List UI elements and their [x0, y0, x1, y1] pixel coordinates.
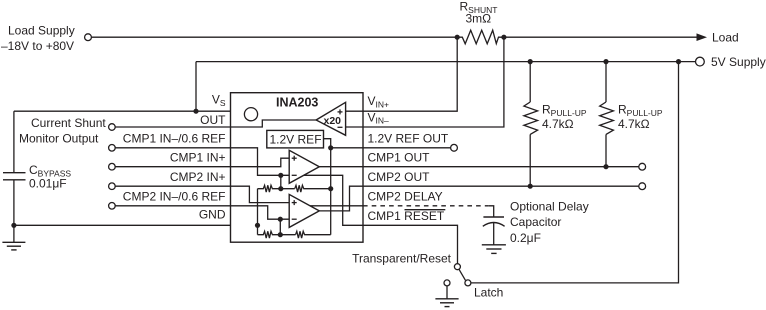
switch: transparent/reset-latch: [352, 252, 503, 300]
wire: CMP2 IN- row: [115, 205, 230, 207]
svg-text:–18V to +80V: –18V to +80V: [1, 39, 74, 53]
pin labels: right side: [368, 94, 449, 223]
svg-text:CMP1 IN–/0.6 REF: CMP1 IN–/0.6 REF: [123, 131, 226, 145]
pin labels: left side: [200, 93, 226, 128]
svg-text:1.2V REF: 1.2V REF: [270, 133, 322, 147]
svg-text:1.2V REF OUT: 1.2V REF OUT: [368, 131, 449, 145]
terminal: CMP2 IN-: [109, 203, 116, 210]
svg-text:CMP2 OUT: CMP2 OUT: [368, 170, 431, 184]
terminal: CMP1 IN+: [109, 163, 116, 170]
label: Current Shunt Monitor Output: [19, 116, 106, 146]
junction: latch to 5V: [676, 59, 681, 64]
svg-text:Monitor Output: Monitor Output: [19, 132, 99, 146]
op-amp x20: [316, 102, 346, 135]
resistor RA (CMP1 divider upper): [258, 185, 295, 192]
ground: delay capacitor: [482, 245, 506, 254]
wire: divider tap CMP2: [279, 219, 281, 235]
wire: CMP2 output: [319, 186, 363, 211]
svg-text:GND: GND: [199, 207, 226, 221]
svg-text:5V Supply: 5V Supply: [711, 55, 766, 69]
svg-text:CMP2 IN–/0.6 REF: CMP2 IN–/0.6 REF: [123, 190, 226, 204]
wire: CMP1 OUT external: [363, 166, 639, 168]
junction: CMP1 divider mid: [278, 186, 283, 191]
wire: 5V supply rail: [196, 61, 695, 63]
wire: C_BYPASS to GND row: [13, 180, 15, 225]
wire: CMP2 plus line: [231, 186, 290, 202]
wire: CMP1 output: [319, 166, 363, 168]
junction: pull-up 2 bottom: [603, 164, 608, 169]
svg-text:Load Supply: Load Supply: [8, 24, 75, 38]
wire: 1.2V REF OUT row: [331, 147, 451, 149]
junction: CMP2 divider mid: [278, 232, 283, 237]
wire: CMP1 RESET to switch: [363, 225, 458, 263]
wire: internal GND vertical: [257, 189, 259, 235]
terminal: Load Supply: [85, 34, 92, 41]
svg-text:Load: Load: [712, 31, 739, 45]
wire: CMP2 OUT external: [363, 185, 639, 187]
wire: CMP1 minus line and reset branch: [231, 148, 364, 226]
dashed wire: CMP2 DELAY: [363, 205, 488, 207]
svg-text:CMP1 IN+: CMP1 IN+: [170, 151, 226, 165]
IC INA203 box: [231, 93, 364, 243]
wire: Vs row: [14, 110, 231, 112]
wire: CMP1 plus line: [231, 158, 290, 167]
wire: VIN+ from shunt left: [346, 37, 458, 111]
wire: REF box out jog: [324, 139, 331, 148]
wire: CMP2 IN+ row: [115, 185, 230, 187]
svg-text:CMP1 OUT: CMP1 OUT: [368, 151, 431, 165]
wire: divider tap CMP1: [280, 175, 282, 188]
wire: CMP2 minus line: [231, 206, 290, 219]
resistor RB (CMP1 divider lower): [295, 185, 331, 192]
junction: GND internal: [255, 223, 260, 228]
resistor RD (CMP2 divider lower): [296, 231, 331, 238]
svg-text:Transparent/Reset: Transparent/Reset: [352, 252, 452, 266]
capacitor C_BYPASS: [3, 163, 71, 191]
wire: CMP1 IN- row: [115, 147, 230, 149]
pin-1 circle: [244, 108, 257, 121]
wire: OUT row: [115, 126, 230, 128]
terminal: CMP1 IN-: [109, 145, 116, 152]
terminal: OUT: [109, 124, 116, 131]
terminal: 5V Supply: [696, 55, 766, 69]
svg-text:Capacitor: Capacitor: [510, 215, 561, 229]
comparator CMP2: [289, 194, 319, 227]
terminal: CMP2 OUT: [639, 183, 646, 190]
svg-text:INA203: INA203: [276, 96, 318, 110]
wire: CMP1 IN+ row: [115, 166, 230, 168]
junction: Vs node: [193, 109, 198, 114]
svg-text:Latch: Latch: [474, 286, 503, 300]
wire: VIN- from shunt right: [346, 37, 504, 127]
junction: pull-up 1 top: [528, 59, 533, 64]
delay capacitor 0.2uF: [483, 200, 589, 245]
junction: REF out node: [328, 145, 333, 150]
junction: shunt left node: [455, 35, 460, 40]
wire: shunt to Load arrow: [504, 36, 698, 38]
wire: load supply to R_SHUNT: [91, 36, 457, 38]
junction: GND left node: [11, 223, 16, 228]
terminal: CMP1 OUT: [639, 163, 646, 170]
wire: CMP2 delay branch: [298, 205, 363, 207]
ground: C_BYPASS: [2, 225, 25, 250]
junction: shunt right node: [501, 35, 506, 40]
junction: CMP2 minus to divider: [278, 217, 283, 222]
svg-text:3mΩ: 3mΩ: [466, 12, 492, 26]
svg-text:4.7kΩ: 4.7kΩ: [618, 117, 650, 131]
junction: pull-up 1 bottom: [528, 184, 533, 189]
label: Load Supply -18V to +80V: [1, 24, 75, 54]
svg-text:x20: x20: [324, 115, 342, 127]
terminal: 1.2V REF OUT: [451, 144, 458, 151]
terminal: CMP2 IN+: [109, 183, 116, 190]
resistor R_PULL-UP 1: [524, 62, 587, 187]
svg-text:0.01μF: 0.01μF: [29, 177, 67, 191]
1.2V REF box: [267, 130, 324, 148]
wire: REF vertical feed: [330, 148, 332, 235]
svg-text:CMP2 DELAY: CMP2 DELAY: [368, 190, 443, 204]
junction: pull-up 2 top: [603, 59, 608, 64]
wire: 5V rail down to Vs node: [195, 62, 197, 112]
wire: OUT pin to x20 output: [231, 120, 317, 127]
svg-text:OUT: OUT: [200, 113, 226, 127]
junction: REF to RB: [328, 186, 333, 191]
resistor R_PULL-UP 2: [600, 62, 663, 167]
resistor RC (CMP2 divider upper): [258, 231, 296, 238]
svg-text:4.7kΩ: 4.7kΩ: [542, 117, 574, 131]
comparator CMP1: [289, 150, 319, 183]
wire: GND row: [14, 224, 231, 226]
ground: switch: [435, 286, 458, 307]
wire: left vertical to C_BYPASS: [13, 111, 15, 172]
arrow + label: Load: [697, 31, 739, 45]
svg-text:CMP2 IN+: CMP2 IN+: [170, 170, 226, 184]
svg-text:Optional Delay: Optional Delay: [510, 200, 589, 214]
wire: Latch contact to 5V rail: [471, 62, 679, 283]
svg-text:Current Shunt: Current Shunt: [31, 116, 106, 130]
svg-text:CMP1 RESET: CMP1 RESET: [368, 209, 445, 223]
junction: CMP1 minus to divider: [278, 173, 283, 178]
svg-text:0.2μF: 0.2μF: [510, 231, 541, 245]
resistor R_SHUNT: [456, 0, 504, 44]
